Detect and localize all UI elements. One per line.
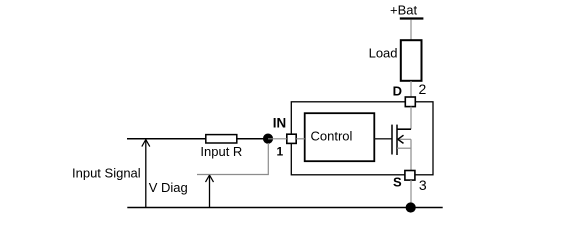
wire pin D to drain bbox=[410, 107, 412, 130]
pin D square bbox=[405, 97, 415, 107]
wire IN to Control bbox=[296, 138, 305, 140]
wire body/source to pin S bbox=[410, 139, 412, 170]
svg-text:Control: Control bbox=[311, 129, 353, 144]
wire pin S to ground node bbox=[410, 180, 412, 207]
pin IN square bbox=[287, 134, 296, 143]
svg-text:IN: IN bbox=[273, 116, 286, 131]
svg-text:+Bat: +Bat bbox=[390, 2, 417, 17]
wire ground rail bbox=[127, 207, 442, 209]
wire Control to gate bbox=[374, 138, 392, 140]
wire node 1 to pin IN bbox=[268, 138, 287, 140]
svg-text:3: 3 bbox=[419, 177, 427, 193]
transistor Q1 n-channel MOSFET bbox=[392, 125, 411, 155]
wire Load to pin D bbox=[410, 81, 412, 97]
svg-text:S: S bbox=[393, 175, 402, 190]
resistor Load bbox=[401, 40, 422, 81]
wire +Bat to Load bbox=[410, 20, 412, 40]
IC outline bbox=[291, 102, 433, 175]
svg-text:2: 2 bbox=[419, 81, 427, 97]
svg-text:Load: Load bbox=[369, 46, 398, 61]
svg-text:Input Signal: Input Signal bbox=[72, 166, 141, 181]
resistor Input R bbox=[206, 135, 237, 143]
wire input bbox=[127, 138, 206, 140]
svg-text:Input R: Input R bbox=[200, 144, 242, 159]
control block bbox=[305, 113, 375, 161]
svg-text:D: D bbox=[393, 83, 402, 98]
svg-text:V Diag: V Diag bbox=[149, 180, 188, 195]
measurement arrow V Diag bbox=[206, 175, 214, 207]
pin S square bbox=[405, 171, 415, 181]
wire V Diag tap bbox=[197, 143, 268, 175]
measurement arrow Input Signal bbox=[142, 140, 150, 208]
battery terminal bar bbox=[400, 17, 424, 19]
node ground junction bbox=[406, 202, 416, 212]
wire resistor to node 1 bbox=[237, 138, 268, 140]
node 1 junction bbox=[263, 134, 273, 144]
svg-text:1: 1 bbox=[277, 144, 284, 158]
